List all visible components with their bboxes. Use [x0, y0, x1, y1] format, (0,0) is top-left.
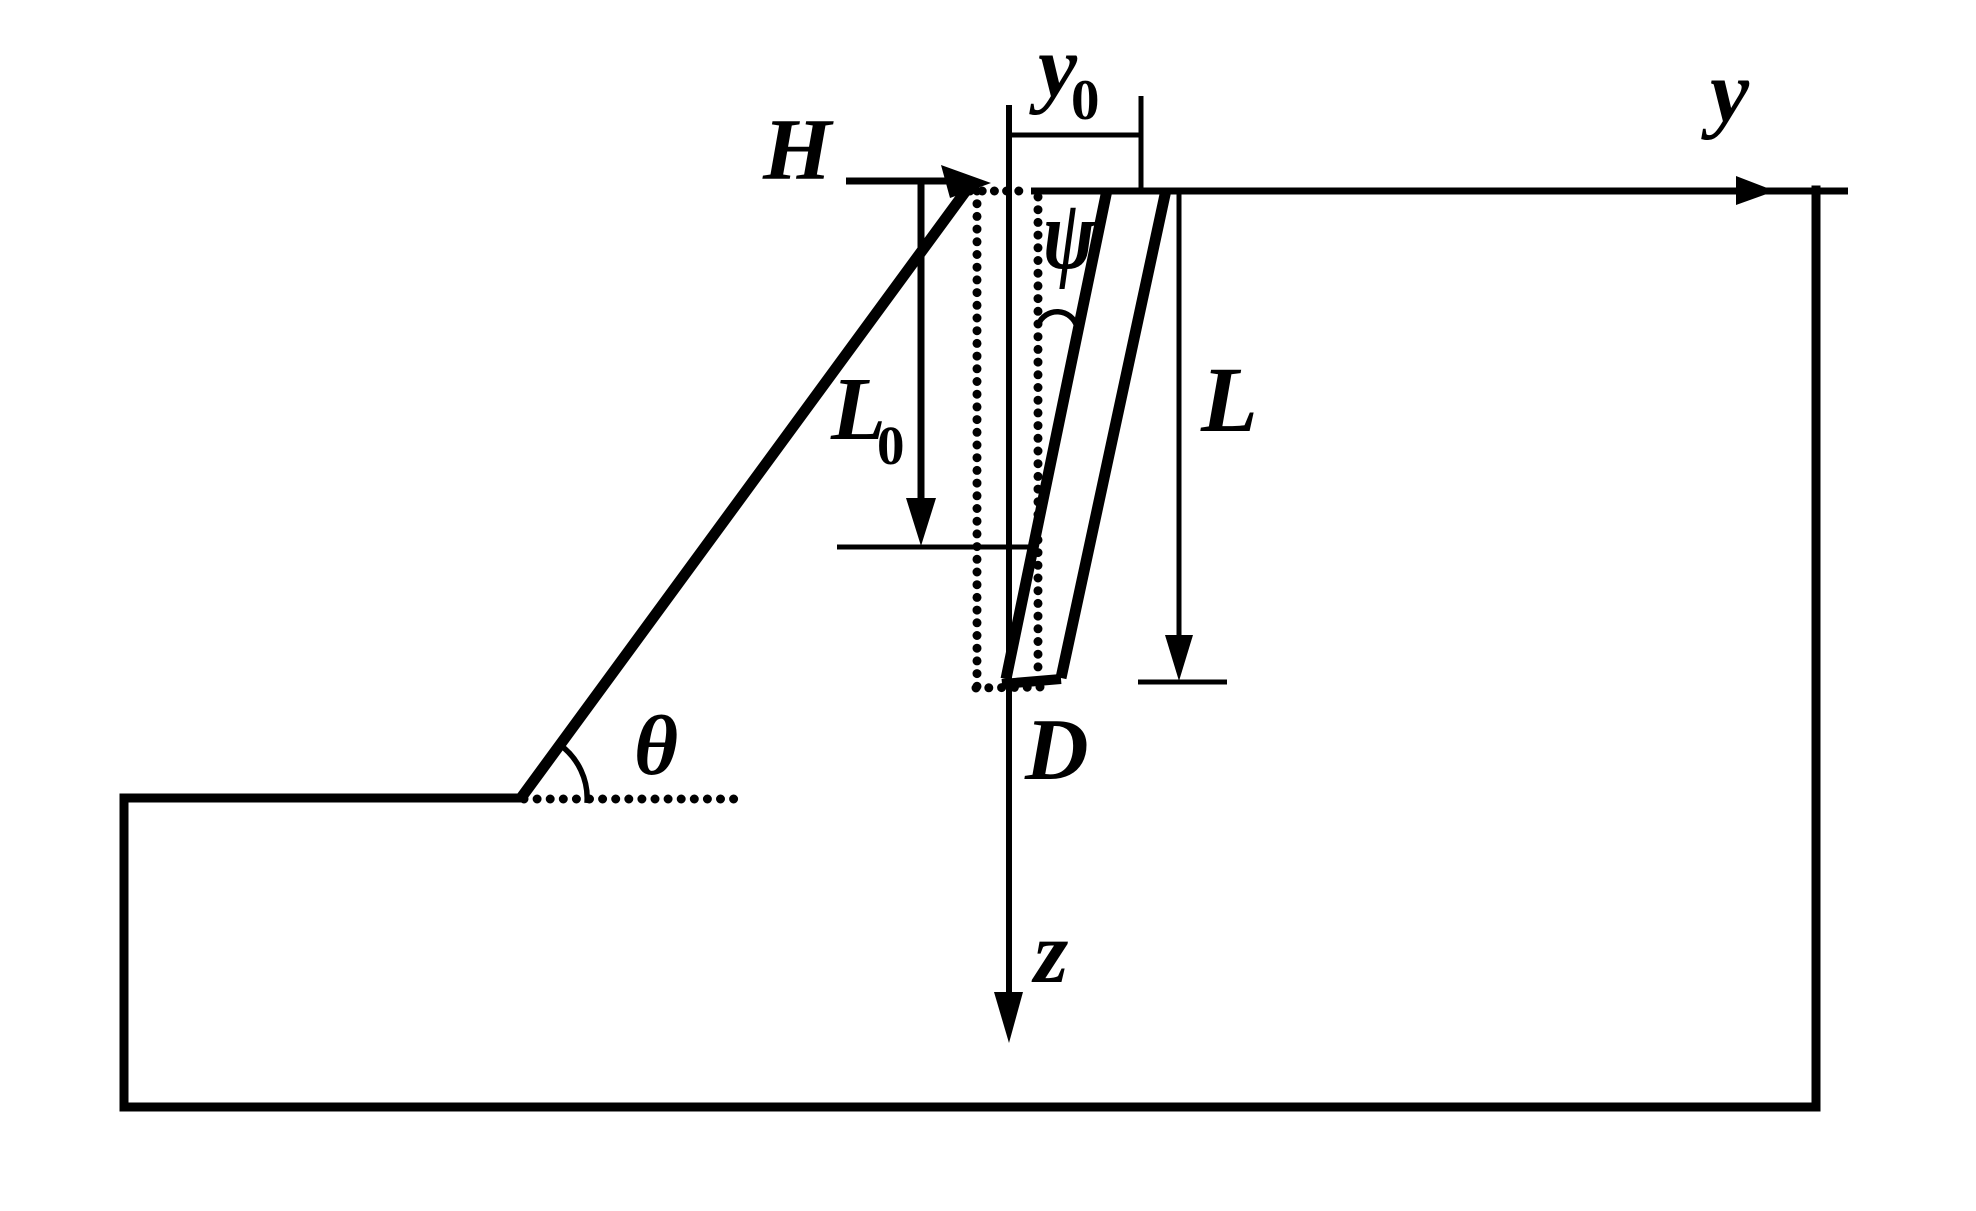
svg-text:0: 0 [877, 415, 905, 476]
tilted pile left edge [1006, 190, 1107, 679]
svg-text:D: D [1024, 702, 1089, 799]
y axis line [1031, 188, 1848, 195]
svg-text:H: H [762, 102, 834, 199]
L0 dimension arrow line [918, 183, 925, 505]
L arrowhead [1165, 635, 1193, 681]
ground outline (bench, left side, bottom, right side) [124, 190, 1816, 1107]
svg-text:L: L [1200, 349, 1258, 452]
svg-text:θ: θ [634, 699, 678, 793]
z axis arrowhead [994, 992, 1023, 1043]
dotted pile top row [970, 187, 1031, 196]
svg-text:ψ: ψ [1043, 180, 1096, 290]
L0 arrowhead [906, 498, 936, 546]
svg-text:0: 0 [1071, 69, 1100, 132]
dotted pile left column [973, 191, 982, 688]
svg-text:z: z [1031, 905, 1068, 1002]
psi angle arc [1038, 312, 1077, 327]
tilted pile bottom edge [1002, 679, 1061, 684]
slope face line [521, 188, 968, 798]
tilted pile right edge [1061, 190, 1166, 678]
theta dotted horizontal line [524, 795, 734, 804]
dotted pile bottom row [976, 687, 1040, 688]
L dimension arrow line [1177, 193, 1182, 645]
H leader arrowhead [941, 165, 991, 198]
H leader line [846, 178, 950, 185]
dotted pile right column [1034, 197, 1043, 673]
y0 right tick [1139, 96, 1144, 193]
z axis line [1006, 105, 1012, 1000]
L extent base line [1138, 680, 1227, 685]
y0 dimension line [1009, 133, 1141, 138]
theta angle arc [560, 745, 588, 804]
L0 extent base line [837, 545, 1032, 550]
y axis arrowhead [1736, 176, 1775, 205]
